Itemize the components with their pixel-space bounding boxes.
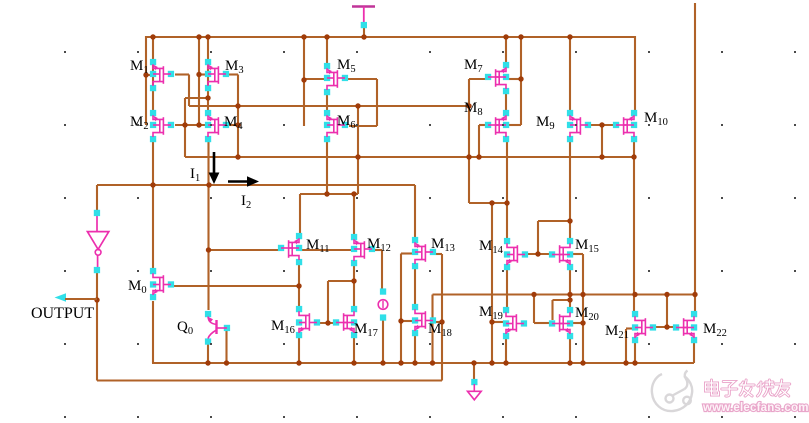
transistor M16 <box>296 306 320 338</box>
wire mirror node horizontal y294 <box>433 293 696 295</box>
wire M6 drain branch y194 <box>300 193 358 195</box>
transistor M3 <box>205 59 229 91</box>
wire left rail drop to M1/M2 gates <box>145 36 147 125</box>
label M0 <box>128 278 147 296</box>
wire M11 bulk to M12 gate <box>302 249 351 251</box>
junction rail/M17 <box>351 360 356 365</box>
junction y203/x492 <box>489 200 494 205</box>
svg-text:www.elecfans.com: www.elecfans.com <box>702 402 809 414</box>
transistor M20 <box>549 307 573 339</box>
label OUTPUT <box>31 305 94 322</box>
wire M21 bulk to M22 gate <box>656 326 674 328</box>
transistor M4 <box>205 110 229 142</box>
junction I1 node <box>206 182 211 187</box>
wire M13/M18 bulk vertical x442 <box>441 254 443 381</box>
wire M0 source down to ground rail <box>152 301 154 363</box>
svg-text:M19: M19 <box>479 304 503 322</box>
ground symbol <box>468 379 482 400</box>
junction M1 gate <box>143 72 148 77</box>
label M4 <box>224 114 243 132</box>
label M3 <box>225 58 244 76</box>
wire M8 bulk stub <box>509 124 521 126</box>
transistor M8 <box>485 110 509 142</box>
label M22 <box>703 321 727 339</box>
label M17 <box>354 321 378 339</box>
junction y221/M9 drain <box>567 218 572 223</box>
wire x538 vertical <box>537 221 539 254</box>
junction y106/x238 <box>235 103 240 108</box>
wire branch down to M12 drain <box>353 194 355 235</box>
wire M5 bulk stub <box>348 78 377 80</box>
wire branch down x328 <box>327 281 329 324</box>
junction rail/M7 source <box>503 34 508 39</box>
svg-text:M0: M0 <box>128 278 147 296</box>
transistor M14 <box>504 238 528 270</box>
wire M16 bulk to M17 gate <box>317 322 337 324</box>
svg-text:M7: M7 <box>464 57 483 75</box>
wire tall right vertical <box>694 3 696 315</box>
svg-text:M18: M18 <box>428 321 452 339</box>
wire M13 drain to M18 source <box>414 269 416 306</box>
wire M7 drain to M8 source <box>505 94 507 111</box>
junction rail/x432 <box>430 360 435 365</box>
junction y157/x358 <box>355 154 360 159</box>
junction y106/x469 <box>466 103 471 108</box>
wire M1 gate stub <box>146 74 150 76</box>
label M19 <box>479 304 503 322</box>
wire M20 drain to rail <box>569 339 571 363</box>
junction rail/x304 <box>301 34 306 39</box>
wire y203 horizontal <box>469 202 507 204</box>
svg-text:I2: I2 <box>241 193 251 211</box>
wire M3 gate stub <box>199 73 205 75</box>
transistor M19 <box>503 307 527 339</box>
wire VCC stub to rail <box>363 26 365 37</box>
wire M7 gate vertical x469 <box>468 79 470 203</box>
junction y294/right rail <box>692 292 697 297</box>
transistor M7 <box>485 62 509 94</box>
transistor M17 <box>333 306 357 338</box>
wire M1 drain to rail <box>152 37 154 61</box>
wire M2 drain chain down to M0 <box>152 141 154 269</box>
junction rail/M19 <box>503 360 508 365</box>
junction M20 loop <box>567 297 572 302</box>
junction I2/M2 chain <box>150 182 155 187</box>
transistor M9 <box>567 110 591 142</box>
wire M13 bulk stub <box>436 253 442 255</box>
junction y125/x185 <box>182 122 187 127</box>
junction rail/M18 <box>412 360 417 365</box>
wire M9 bulk to M10 gate <box>591 124 614 126</box>
junction output tap <box>94 297 99 302</box>
junction y157/M10 source <box>631 154 636 159</box>
wire M10 gate net vertical x602 <box>601 125 603 157</box>
wire M8 gate vertical x479 <box>478 125 480 157</box>
wire y221 horizontal <box>538 220 570 222</box>
wire M19 drain to rail <box>505 338 507 363</box>
wire M14 drain to M19 source <box>506 270 508 308</box>
wire M1 bulk corner down <box>188 75 190 107</box>
junction rail/ground <box>471 360 476 365</box>
wire M5 drain to M6 source <box>326 94 328 111</box>
wire M17 drain to rail <box>353 337 355 363</box>
wire M8 gate stub <box>479 124 487 126</box>
wire M21 drain to rail <box>634 343 636 363</box>
svg-text:M8: M8 <box>464 100 483 118</box>
label M12 <box>367 236 391 254</box>
label M13 <box>431 236 455 254</box>
inverter U1 <box>87 210 108 273</box>
wire rail drop to M3 gate and M2/M4 gate net <box>198 37 200 125</box>
wire M7 gate stub <box>469 78 486 80</box>
wire M19 gate vertical x492 <box>491 203 493 363</box>
wire ground stub <box>473 363 475 380</box>
wire M20 gate feed <box>534 322 549 324</box>
junction rail/Q0 base <box>224 360 229 365</box>
transistor M6 <box>324 110 348 142</box>
wire M14 bulk to M15 gate <box>526 253 550 255</box>
wire M15 drain to M20 source <box>569 269 571 307</box>
wire M8 drain to M14 source <box>506 141 508 239</box>
junction y106/x358 <box>355 103 360 108</box>
label I1 <box>190 166 200 184</box>
wire M15/M20 bulk vertical x583 <box>582 254 584 363</box>
wire M16 drain to rail <box>298 337 300 363</box>
wire x358 vertical linking y106/y157/y194 <box>357 106 359 194</box>
junction M19 gate stub <box>489 319 494 324</box>
label M6 <box>337 113 356 131</box>
junction y194/M12 drain <box>351 191 356 196</box>
wire M5 gate stub <box>304 78 324 80</box>
svg-text:M14: M14 <box>479 238 504 256</box>
svg-text:M15: M15 <box>575 237 599 255</box>
junction y125/x238 <box>235 122 240 127</box>
wire M5/M6 bulk vertical <box>376 79 378 126</box>
wire M13 gate stub <box>401 252 412 254</box>
junction M7 bulk <box>518 76 523 81</box>
wire M3 bulk stub <box>229 73 238 75</box>
svg-text:I1: I1 <box>190 166 200 184</box>
junction rail/x583 <box>580 360 585 365</box>
junction y125/x199 <box>196 122 201 127</box>
svg-text:M6: M6 <box>337 113 356 131</box>
wire M3 drain to M4 source <box>207 64 209 111</box>
junction y157/x479 <box>476 154 481 159</box>
svg-text:M13: M13 <box>431 236 455 254</box>
junction node A <box>205 95 210 100</box>
wire mirror node vertical x432 <box>431 295 433 364</box>
junction rail/x521 <box>518 34 523 39</box>
junction y203/M8 drain <box>504 200 509 205</box>
transistor Q0 <box>205 311 230 345</box>
junction rail/M20 <box>567 360 572 365</box>
svg-text:M3: M3 <box>225 58 244 76</box>
wire M18 gate stub <box>401 320 412 322</box>
label M8 <box>464 100 483 118</box>
wire node A vertical x185 <box>184 98 186 157</box>
wire bottom return rail y380 <box>97 379 442 381</box>
wire M2 bulk to M4 gate <box>175 124 206 126</box>
svg-text:M10: M10 <box>644 110 668 128</box>
wire current source top lead <box>381 250 383 289</box>
label M9 <box>536 114 555 132</box>
transistor M18 <box>412 304 436 336</box>
wire M18 bulk stub <box>436 321 442 323</box>
svg-text:M11: M11 <box>306 237 329 255</box>
junction M0 bulk tap <box>296 283 301 288</box>
power VCC symbol <box>352 7 375 29</box>
junction M18 gate stub <box>398 318 403 323</box>
wire VDD top rail <box>146 36 635 38</box>
wire M15 bulk stub <box>573 253 583 255</box>
transistor M0 <box>150 268 174 300</box>
wire M12 bulk stub <box>375 249 382 251</box>
current arrow I1 <box>209 152 220 184</box>
junction x328 gate net <box>325 320 330 325</box>
label M21 <box>605 323 629 341</box>
junction y294/x667 <box>664 292 669 297</box>
wire M20 gate-drain loop vertical <box>551 300 553 320</box>
transistor M2 <box>150 110 174 142</box>
svg-text:M5: M5 <box>337 57 356 75</box>
junction y157/x469 <box>466 154 471 159</box>
svg-text:M12: M12 <box>367 236 391 254</box>
svg-text:M9: M9 <box>536 114 555 132</box>
junction rail/M1 drain <box>150 34 155 39</box>
wire M20 gate-drain loop horizontal <box>553 299 571 301</box>
wire y294 corner down x534 <box>533 295 535 324</box>
junction M11 gate net <box>206 247 211 252</box>
junction rail/current source <box>380 360 385 365</box>
wire ground rail y363 <box>152 362 694 364</box>
wire M10 drain to M21 source <box>633 141 635 312</box>
junction rail/M5 source <box>324 34 329 39</box>
junction M12 branch <box>351 278 356 283</box>
wire Q0 base down to rail <box>225 330 227 363</box>
label M10 <box>644 110 668 128</box>
svg-text:OUTPUT: OUTPUT <box>31 305 94 322</box>
svg-text:M16: M16 <box>271 318 295 336</box>
label M11 <box>306 237 329 255</box>
current arrow I2 <box>228 176 259 187</box>
label M16 <box>271 318 295 336</box>
wire M4 bulk stub <box>229 124 238 126</box>
junction x667/M22 gate <box>664 324 669 329</box>
junction M14 bulk net <box>535 251 540 256</box>
wire rail drop to M7/M8 bulk <box>520 37 522 125</box>
svg-text:Q0: Q0 <box>177 319 193 337</box>
svg-text:M17: M17 <box>354 321 378 339</box>
wire M0 bulk to M16 drain column <box>174 285 299 287</box>
wire inverter input drop <box>96 185 98 214</box>
junction rail/VCC <box>361 34 366 39</box>
label M20 <box>575 305 599 323</box>
junction y294/M10 chain <box>632 292 637 297</box>
junction rail/M16 <box>296 360 301 365</box>
port OUTPUT arrow <box>55 293 98 302</box>
label Q0 <box>177 319 193 337</box>
junction y157/x602 <box>599 154 604 159</box>
wire I2 node horizontal y185 <box>97 184 415 186</box>
wire M6 bulk stub <box>349 125 377 127</box>
transistor M22 <box>673 311 697 343</box>
junction rail/x492 <box>489 360 494 365</box>
label I2 <box>241 193 251 211</box>
junction M3 gate <box>196 72 201 77</box>
junction y294/M20 drain <box>567 292 572 297</box>
junction x442/M18 bulk <box>439 319 444 324</box>
label M2 <box>130 114 149 132</box>
wire M11 drain to M16 source <box>298 265 300 308</box>
label M18 <box>428 321 452 339</box>
svg-text:M21: M21 <box>605 323 629 341</box>
wire rail end drop to M10 source <box>634 36 636 111</box>
junction rail/x199 <box>196 34 201 39</box>
wire M7 source to rail <box>505 37 507 63</box>
wire I2 node down to M13 source <box>414 185 416 238</box>
junction rail/M9 source <box>567 34 572 39</box>
wire M6 drain down <box>326 141 328 194</box>
transistor M5 <box>324 63 348 95</box>
svg-text:M20: M20 <box>575 305 599 323</box>
wire long mid horizontal y157 <box>185 156 634 158</box>
svg-text:M22: M22 <box>703 321 727 339</box>
junction rail/x626 <box>623 360 628 365</box>
junction x583/M20 bulk <box>580 320 585 325</box>
wire M5 source to rail <box>326 37 328 64</box>
junction rail/M21 <box>632 360 637 365</box>
wire M13/M18 gate vertical x401 <box>400 254 402 364</box>
wire M21 gate stub <box>626 327 632 329</box>
wire M1 bulk to corner <box>175 73 189 75</box>
junction y194/M6 drain <box>324 191 329 196</box>
wire node A horizontal y98 <box>185 97 208 99</box>
junction rail/Q0 emitter <box>205 360 210 365</box>
label M15 <box>575 237 599 255</box>
wire M12 drain to M17 source <box>353 265 355 308</box>
wire M4 drain chain down to Q0 <box>207 141 209 310</box>
wire M7 bulk stub <box>509 78 521 80</box>
svg-text:M4: M4 <box>224 114 243 132</box>
transistor M15 <box>549 238 573 270</box>
wire M21 gate drop x626 <box>625 329 627 363</box>
label M1 <box>130 58 149 76</box>
label M14 <box>479 238 504 256</box>
wire node I2 to M11 gate <box>209 249 280 251</box>
transistor M21 <box>632 311 656 343</box>
transistor M12 <box>351 234 375 266</box>
wire M18 drain to rail <box>414 335 416 363</box>
junction rail/M3 drain <box>205 34 210 39</box>
transistor M10 <box>613 110 637 142</box>
junction M10 gate net <box>599 122 604 127</box>
watermark logo and text <box>652 371 809 415</box>
junction y294/x534 <box>531 292 536 297</box>
wire branch down to M11 drain <box>299 194 301 234</box>
wire M9 source to rail <box>569 37 571 111</box>
wire current source bottom lead <box>382 320 384 363</box>
wire M3 drain to rail <box>207 37 209 61</box>
junction M5 gate <box>301 77 306 82</box>
wire long mid horizontal y106 <box>189 105 469 107</box>
transistor M11 <box>278 233 302 265</box>
wire inverter output to output node <box>96 269 98 381</box>
junction y157/x238 <box>235 154 240 159</box>
wire rail drop to M5/M6 gates <box>303 37 305 126</box>
label M5 <box>337 57 356 75</box>
transistor M1 <box>150 59 174 91</box>
wire M9 drain to M15 source <box>569 141 571 239</box>
junction y294/x583 <box>580 292 585 297</box>
wire M12 column branch y281 <box>328 280 354 282</box>
current source I0 <box>378 288 388 320</box>
wire x667 vertical <box>666 295 668 328</box>
wire M1 drain to M2 source <box>152 64 154 111</box>
wire Q0 collector down to rail <box>207 344 209 363</box>
wire M20 bulk stub <box>573 322 583 324</box>
wire M22 drain to rail <box>693 343 695 363</box>
wire M19 gate stub <box>492 321 503 323</box>
wire M3 bulk vertical <box>237 75 239 158</box>
transistor M13 <box>412 237 436 269</box>
junction rail/x401 <box>398 360 403 365</box>
label M7 <box>464 57 483 75</box>
